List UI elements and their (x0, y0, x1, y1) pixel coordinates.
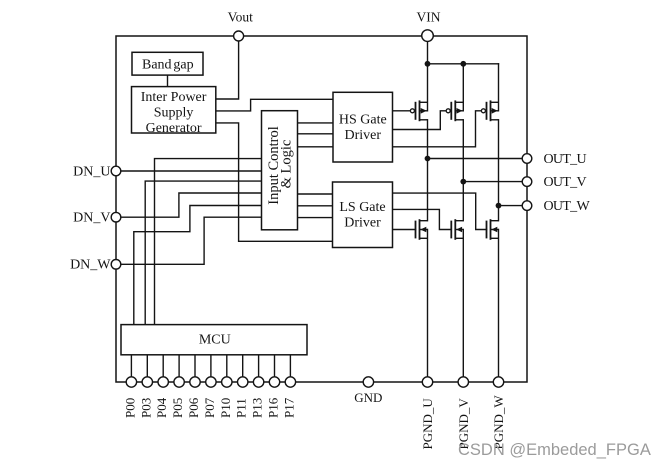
wire: HS gate 2 (to Q2) (393, 111, 447, 130)
pin PGND_U (422, 377, 432, 387)
wire: phase node U (Q1 drain to Q4 drain) (427, 120, 429, 221)
wire: OUT_V tap (463, 181, 527, 183)
wire: phase node W (498, 120, 500, 221)
block Bandgap (132, 52, 203, 75)
svg-text:GND: GND (354, 390, 382, 405)
wire: Inter Power to HS Gate Driver supply (216, 99, 333, 111)
pin DN_U (111, 166, 121, 176)
pin P00 (126, 377, 136, 387)
junction OUT_W (496, 203, 502, 209)
wire: MCU line 1 to Input Control (vertical riser x=154.5) (155, 159, 262, 325)
IC package outline (116, 36, 527, 382)
block MCU (121, 325, 307, 355)
svg-text:P07: P07 (202, 397, 217, 418)
svg-text:DN_V: DN_V (73, 211, 110, 226)
svg-text:Generator: Generator (146, 121, 202, 136)
svg-text:Supply: Supply (154, 106, 194, 121)
wire: MCU line 2 to Input Control (vertical riser x=145.2) (145, 181, 261, 325)
svg-text:Bandgap: Bandgap (142, 58, 194, 73)
svg-text:P00: P00 (122, 398, 137, 418)
wire: phase node V (462, 120, 464, 221)
transistor Q6 (LS W, NMOS) (487, 219, 499, 240)
pin GND (363, 377, 373, 387)
wire: Input Control to HS Gate Driver control 3 (298, 146, 334, 148)
pin DN_W (111, 260, 121, 270)
pin DN_V (111, 212, 121, 222)
svg-text:P05: P05 (170, 398, 185, 418)
pin VIN (422, 30, 434, 42)
svg-text:PGND_U: PGND_U (420, 398, 435, 450)
junction OUT_U (425, 156, 431, 162)
wire: Q4 source to PGND_U (427, 230, 429, 383)
label Input Control & Logic (rotated) (266, 126, 295, 205)
svg-text:P06: P06 (186, 397, 201, 418)
wire: MCU line 3 to Input Control (jogged riser x=133.8) (134, 206, 262, 326)
wire: VIN drop to Q2 (462, 64, 464, 111)
wire: Input Control to HS Gate Driver control 2 (298, 133, 334, 135)
svg-text:P11: P11 (234, 398, 249, 418)
pin P06 (190, 377, 200, 387)
wire: OUT_W tap (499, 205, 528, 207)
wire: Input Control to LS Gate Driver control 1 (298, 193, 333, 195)
svg-text:Driver: Driver (344, 216, 381, 231)
pin P03 (142, 377, 152, 387)
junction VIN-U (425, 61, 431, 67)
wire: Q6 source to PGND_W (498, 230, 500, 383)
svg-text:& Logic: & Logic (278, 140, 294, 189)
svg-text:P17: P17 (281, 397, 296, 418)
svg-text:VIN: VIN (417, 10, 441, 25)
transistor Q5 (LS V, NMOS) (451, 219, 463, 240)
wire: VIN rail (428, 63, 499, 65)
block Inter Power Supply Generator (132, 87, 216, 133)
wire: OUT_U tap (428, 158, 528, 160)
wire: Inter Power to LS Gate Driver supply (wraps under Input Control) (216, 123, 333, 241)
pin P10 (222, 377, 232, 387)
svg-text:Driver: Driver (345, 128, 382, 143)
transistor Q3 (HS W, PMOS) (481, 100, 498, 121)
pin P13 (253, 377, 263, 387)
wire: HS gate 1 (to Q1) (393, 110, 411, 112)
wire: Vout drop to Inter Power Supply Generator (216, 36, 239, 99)
pin P11 (238, 377, 248, 387)
wire: Input Control to LS Gate Driver control 2 (298, 205, 333, 207)
svg-text:HS Gate: HS Gate (339, 113, 387, 128)
svg-text:P04: P04 (154, 397, 169, 418)
pin OUT_U (522, 154, 532, 164)
pin P17 (285, 377, 295, 387)
svg-text:DN_W: DN_W (70, 258, 111, 273)
pin OUT_V (522, 177, 532, 187)
wire: Bandgap to Inter Power Supply link (167, 75, 169, 87)
wire: DN_V to Input Control (116, 193, 262, 217)
pin P07 (206, 377, 216, 387)
wire: Q5 source to PGND_V (462, 230, 464, 383)
wire: LS gate 2 (to Q5) (393, 209, 452, 229)
svg-text:P10: P10 (218, 398, 233, 418)
wire: VIN drop to Q3 (498, 64, 500, 111)
pin P04 (158, 377, 168, 387)
wire: Input Control to LS Gate Driver control 3 (298, 217, 333, 219)
junction VIN-V (460, 61, 466, 67)
wire: MCU stubs to P pins (131, 355, 290, 382)
svg-text:P16: P16 (266, 397, 281, 418)
pin PGND_W (493, 377, 503, 387)
block HS Gate Driver (333, 92, 393, 162)
pin P05 (174, 377, 184, 387)
block Input Control & Logic (262, 111, 298, 230)
svg-text:P13: P13 (250, 398, 265, 418)
wire: VIN drop to Q1 (427, 36, 429, 111)
pin OUT_W (522, 201, 532, 211)
svg-text:Inter Power: Inter Power (141, 90, 207, 105)
wire: DN_W to Input Control (116, 217, 262, 264)
svg-text:DN_U: DN_U (73, 164, 110, 179)
svg-text:CSDN @Embeded_FPGA: CSDN @Embeded_FPGA (458, 441, 651, 459)
wire: Input Control to HS Gate Driver control 1 (298, 122, 334, 124)
svg-text:OUT_U: OUT_U (544, 152, 587, 167)
pin Vout (234, 31, 244, 41)
wire: HS gate 3 (to Q3) (393, 111, 482, 147)
svg-text:Vout: Vout (228, 10, 254, 25)
transistor Q2 (HS V, PMOS) (446, 100, 463, 121)
wire: LS gate 3 (to Q6) (393, 193, 487, 229)
block LS Gate Driver (333, 182, 393, 248)
svg-text:MCU: MCU (199, 332, 231, 347)
transistor Q1 (HS U, PMOS) (410, 100, 427, 121)
transistor Q4 (LS U, NMOS) (416, 219, 428, 240)
svg-text:OUT_V: OUT_V (544, 175, 587, 190)
svg-text:OUT_W: OUT_W (544, 199, 591, 214)
wire: DN_U to Input Control (116, 170, 262, 172)
wire: LS gate 1 (to Q4) (393, 229, 416, 231)
svg-text:P03: P03 (138, 398, 153, 418)
pin PGND_V (458, 377, 468, 387)
junction OUT_V (460, 179, 466, 185)
pin P16 (269, 377, 279, 387)
svg-text:LS Gate: LS Gate (339, 200, 385, 215)
